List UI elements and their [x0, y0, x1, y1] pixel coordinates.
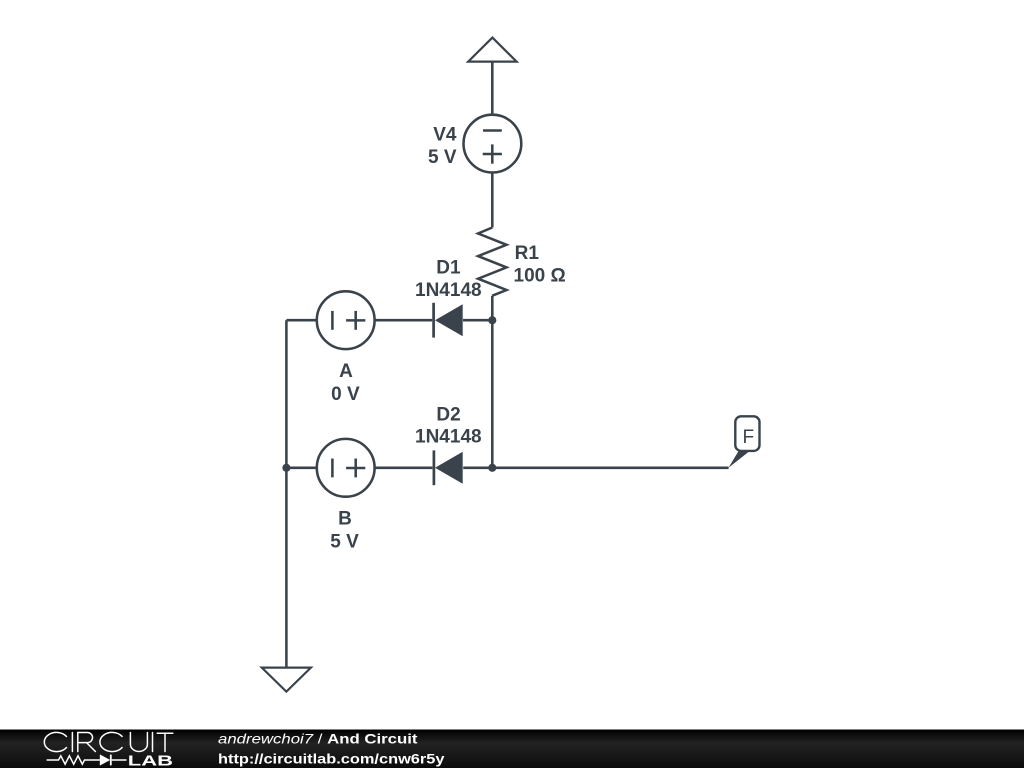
- svg-text:LAB: LAB: [128, 753, 173, 768]
- svg-text:5 V: 5 V: [330, 532, 359, 553]
- svg-text:1N4148: 1N4148: [415, 280, 482, 301]
- svg-text:andrewchoi7 / And Circuit: andrewchoi7 / And Circuit: [218, 731, 418, 747]
- svg-text:http://circuitlab.com/cnw6r5y: http://circuitlab.com/cnw6r5y: [218, 751, 445, 767]
- svg-text:D1: D1: [436, 258, 461, 279]
- svg-text:1N4148: 1N4148: [415, 427, 482, 448]
- svg-text:0 V: 0 V: [331, 384, 360, 405]
- svg-text:R1: R1: [515, 243, 540, 264]
- svg-text:B: B: [338, 509, 352, 530]
- svg-text:V4: V4: [433, 125, 457, 146]
- svg-text:F: F: [742, 427, 754, 448]
- svg-text:100 Ω: 100 Ω: [514, 266, 566, 287]
- svg-text:5 V: 5 V: [428, 147, 457, 168]
- svg-text:D2: D2: [436, 404, 460, 425]
- svg-text:A: A: [339, 361, 353, 382]
